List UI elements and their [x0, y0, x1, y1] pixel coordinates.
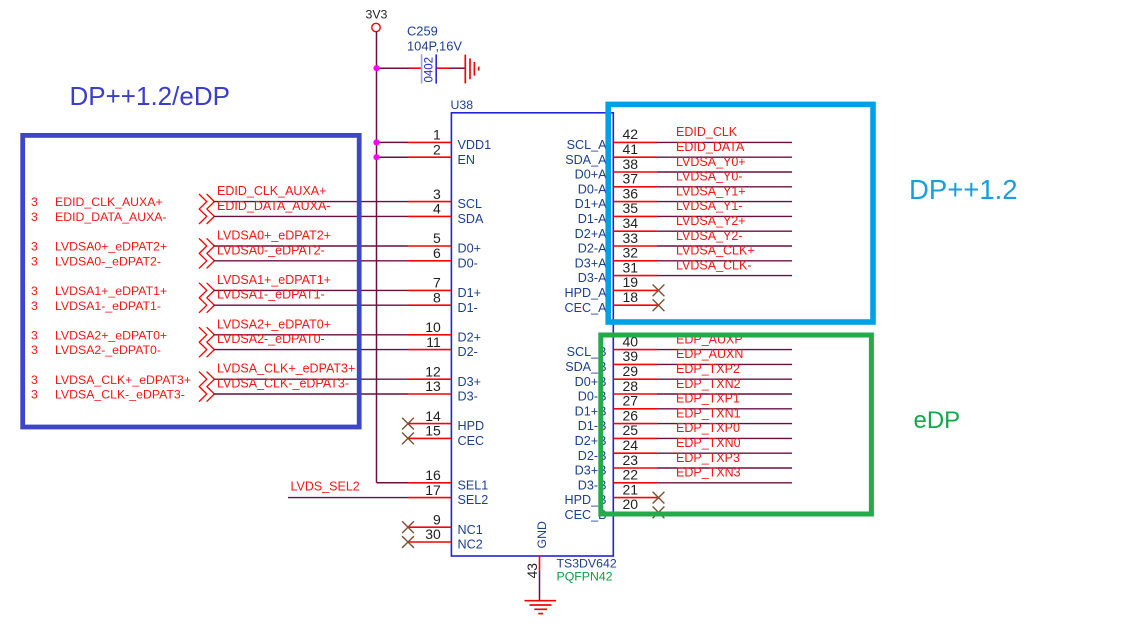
svg-text:eDP: eDP: [914, 407, 961, 434]
pin 42 (SCL_A) stub: [613, 141, 657, 143]
svg-text:3: 3: [31, 210, 38, 224]
pin 27 (D1+B) stub: [613, 408, 657, 410]
svg-text:4: 4: [433, 201, 441, 217]
svg-text:D2-A: D2-A: [578, 242, 607, 256]
svg-text:1: 1: [433, 127, 441, 143]
wire LVDSA_CLK-_eDPAT3-: [214, 393, 409, 395]
wire LVDSA_Y2-: [657, 245, 792, 247]
pin 3 (SCL) stub: [408, 201, 451, 203]
svg-text:27: 27: [623, 393, 639, 409]
wire capacitor to ground: [450, 67, 465, 69]
svg-text:EDID_DATA_AUXA-: EDID_DATA_AUXA-: [55, 210, 167, 224]
junction dot EN: [373, 154, 379, 160]
ground symbol at U38 pin 43: [525, 601, 557, 614]
svg-text:HPD_A: HPD_A: [565, 286, 608, 300]
wire EDP_TXN2: [657, 393, 792, 395]
svg-text:DP++1.2: DP++1.2: [909, 174, 1018, 205]
svg-text:D0+A: D0+A: [575, 168, 607, 182]
svg-text:34: 34: [623, 215, 639, 231]
svg-text:D1-: D1-: [458, 301, 478, 315]
svg-text:8: 8: [433, 289, 441, 305]
svg-text:D2+A: D2+A: [575, 227, 607, 241]
pin 33 (D2-A) stub: [613, 245, 657, 247]
wire EDID_DATA_AUXA-: [214, 215, 409, 217]
svg-text:D1+: D1+: [458, 286, 481, 300]
no-connect X pin 20: [653, 507, 665, 519]
wire LVDSA_Y0+: [657, 171, 792, 173]
svg-text:21: 21: [623, 481, 639, 497]
svg-text:7: 7: [433, 275, 441, 291]
pin 23 (D3+B) stub: [613, 467, 657, 469]
capacitor C259 left lead: [410, 67, 422, 69]
svg-text:EDP_TXN3: EDP_TXN3: [676, 466, 741, 480]
pin 26 (D1-B) stub: [613, 423, 657, 425]
pin 14 (HPD) stub: [408, 423, 451, 425]
pin 43 (GND) stub: [539, 556, 541, 570]
svg-text:10: 10: [425, 319, 441, 335]
svg-text:3: 3: [31, 373, 38, 387]
svg-text:24: 24: [623, 437, 639, 453]
svg-text:EDID_DATA: EDID_DATA: [676, 140, 745, 154]
svg-text:3: 3: [31, 299, 38, 313]
svg-text:LVDSA_Y1+: LVDSA_Y1+: [676, 184, 746, 198]
svg-text:30: 30: [425, 526, 441, 542]
svg-text:28: 28: [623, 378, 639, 394]
pin 31 (D3-A) stub: [613, 275, 657, 277]
svg-text:LVDSA0+_eDPAT2+: LVDSA0+_eDPAT2+: [55, 240, 167, 254]
pin 6 (D0-) stub: [408, 260, 451, 262]
no-connect X pin 14: [402, 418, 414, 430]
svg-text:VDD1: VDD1: [458, 138, 492, 152]
no-connect X pin 18: [653, 299, 665, 311]
svg-text:LVDSA1+_eDPAT1+: LVDSA1+_eDPAT1+: [217, 273, 331, 287]
no-connect X pin 15: [402, 433, 414, 445]
svg-text:HPD: HPD: [458, 419, 485, 433]
pin 39 (SDA_B) stub: [613, 363, 657, 365]
svg-text:TS3DV642: TS3DV642: [557, 556, 617, 570]
pin 25 (D2+B) stub: [613, 437, 657, 439]
svg-text:17: 17: [425, 482, 441, 498]
pin 8 (D1-) stub: [408, 304, 451, 306]
no-connect X pin 19: [653, 285, 665, 297]
svg-text:D3-A: D3-A: [578, 271, 607, 285]
wire LVDSA0+_eDPAT2+: [214, 245, 409, 247]
pin 32 (D3+A) stub: [613, 260, 657, 262]
off-page connector EDID_DATA_AUXA-: [199, 209, 214, 224]
pin 28 (D0-B) stub: [613, 393, 657, 395]
wire EDP_AUXP: [657, 349, 792, 351]
pin 5 (D0+) stub: [408, 245, 451, 247]
wire GND to ground: [539, 570, 541, 600]
group box eDP: [601, 335, 872, 514]
wire LVDSA_Y1-: [657, 215, 792, 217]
svg-text:38: 38: [623, 156, 639, 172]
wire LVDSA_Y2+: [657, 230, 792, 232]
svg-text:LVDSA_CLK+: LVDSA_CLK+: [676, 244, 755, 258]
svg-text:3V3: 3V3: [366, 8, 388, 22]
pin 38 (D0+A) stub: [613, 171, 657, 173]
wire 3V3 rail to SEL1: [377, 482, 409, 484]
svg-text:LVDSA2-_eDPAT0-: LVDSA2-_eDPAT0-: [217, 332, 325, 346]
capacitor C259 right plate: [435, 54, 437, 83]
svg-text:D2+: D2+: [458, 330, 481, 344]
svg-text:15: 15: [425, 423, 441, 439]
svg-text:26: 26: [623, 407, 639, 423]
pin 37 (D0-A) stub: [613, 186, 657, 188]
off-page connector LVDSA_CLK+_eDPAT3+: [199, 372, 214, 387]
off-page connector LVDSA0+_eDPAT2+: [199, 238, 214, 253]
svg-text:D1-A: D1-A: [578, 212, 607, 226]
svg-text:SCL_A: SCL_A: [567, 138, 608, 152]
svg-text:2: 2: [433, 141, 441, 157]
svg-text:SEL2: SEL2: [458, 493, 489, 507]
svg-text:3: 3: [31, 195, 38, 209]
junction dot VDD1: [373, 139, 379, 145]
svg-text:DP++1.2/eDP: DP++1.2/eDP: [70, 81, 230, 111]
off-page connector LVDSA_CLK-_eDPAT3-: [199, 386, 214, 401]
svg-text:33: 33: [623, 230, 639, 246]
off-page connector LVDSA1-_eDPAT1-: [199, 298, 214, 313]
junction dot capacitor branch: [373, 65, 379, 71]
svg-text:3: 3: [31, 388, 38, 402]
svg-text:D0+: D0+: [458, 242, 481, 256]
off-page connector LVDSA2-_eDPAT0-: [199, 342, 214, 357]
svg-text:LVDSA_Y0+: LVDSA_Y0+: [676, 155, 746, 169]
wire LVDSA_CLK-: [657, 275, 792, 277]
ground symbol at C259: [465, 55, 478, 84]
svg-text:SDA: SDA: [458, 212, 484, 226]
wire LVDSA1+_eDPAT1+: [214, 289, 409, 291]
svg-text:12: 12: [425, 363, 441, 379]
svg-text:PQFPN42: PQFPN42: [557, 569, 613, 583]
svg-text:5: 5: [433, 230, 441, 246]
pin 12 (D3+) stub: [408, 378, 451, 380]
svg-text:22: 22: [623, 467, 639, 483]
svg-text:LVDSA1-_eDPAT1-: LVDSA1-_eDPAT1-: [55, 299, 161, 313]
svg-text:3: 3: [31, 343, 38, 357]
off-page connector LVDSA0-_eDPAT2-: [199, 253, 214, 268]
pin 22 (D3-B) stub: [613, 482, 657, 484]
svg-text:LVDSA_CLK+_eDPAT3+: LVDSA_CLK+_eDPAT3+: [217, 362, 355, 376]
svg-text:0402: 0402: [424, 57, 436, 83]
svg-text:31: 31: [623, 259, 639, 275]
power symbol 3V3: [372, 23, 380, 31]
svg-text:9: 9: [433, 511, 441, 527]
pin 41 (SDA_A) stub: [613, 156, 657, 158]
pin 40 (SCL_B) stub: [613, 349, 657, 351]
svg-text:GND: GND: [535, 521, 549, 548]
pin 21 (HPD_B) stub: [613, 497, 658, 499]
svg-text:D3-: D3-: [458, 390, 478, 404]
svg-text:D1+A: D1+A: [575, 197, 607, 211]
svg-text:LVDSA0+_eDPAT2+: LVDSA0+_eDPAT2+: [217, 229, 331, 243]
pin 15 (CEC) stub: [408, 437, 451, 439]
pin 9 (NC1) stub: [408, 526, 451, 528]
svg-text:CEC_A: CEC_A: [565, 301, 608, 315]
wire LVDS_SEL2: [288, 497, 408, 499]
svg-text:EN: EN: [458, 153, 476, 167]
svg-text:18: 18: [623, 289, 639, 305]
svg-text:LVDSA1-_eDPAT1-: LVDSA1-_eDPAT1-: [217, 288, 325, 302]
svg-text:LVDSA2+_eDPAT0+: LVDSA2+_eDPAT0+: [55, 328, 167, 342]
wire LVDSA_Y1+: [657, 201, 792, 203]
svg-text:36: 36: [623, 185, 639, 201]
svg-text:37: 37: [623, 171, 639, 187]
wire EDID_CLK_AUXA+: [214, 201, 409, 203]
wire EDP_TXN0: [657, 452, 792, 454]
svg-text:EDP_TXP3: EDP_TXP3: [676, 451, 740, 465]
off-page connector EDID_CLK_AUXA+: [199, 194, 214, 209]
pin 34 (D2+A) stub: [613, 230, 657, 232]
svg-text:EDID_CLK_AUXA+: EDID_CLK_AUXA+: [55, 195, 163, 209]
pin 2 (EN) stub: [408, 156, 451, 158]
pin 1 (VDD1) stub: [408, 141, 451, 143]
wire EDP_TXP3: [657, 467, 792, 469]
svg-text:6: 6: [433, 245, 441, 261]
svg-text:41: 41: [623, 141, 639, 157]
off-page connector LVDSA2+_eDPAT0+: [199, 327, 214, 342]
svg-text:42: 42: [623, 126, 639, 142]
wire EDP_TXN3: [657, 482, 792, 484]
svg-text:EDP_TXP2: EDP_TXP2: [676, 362, 740, 376]
svg-text:LVDSA_Y1-: LVDSA_Y1-: [676, 199, 742, 213]
pin 10 (D2+) stub: [408, 334, 451, 336]
wire 3V3 vertical rail: [376, 32, 378, 483]
wire LVDSA_CLK+: [657, 260, 792, 262]
pin 30 (NC2) stub: [408, 541, 451, 543]
svg-text:32: 32: [623, 245, 639, 261]
svg-text:104P,16V: 104P,16V: [407, 39, 462, 54]
svg-text:LVDSA0-_eDPAT2-: LVDSA0-_eDPAT2-: [55, 254, 161, 268]
wire LVDSA2-_eDPAT0-: [214, 349, 409, 351]
svg-text:20: 20: [623, 496, 639, 512]
svg-text:3: 3: [31, 284, 38, 298]
svg-text:LVDSA_CLK+_eDPAT3+: LVDSA_CLK+_eDPAT3+: [55, 373, 191, 387]
svg-text:CEC: CEC: [458, 434, 485, 448]
svg-text:14: 14: [425, 408, 441, 424]
pin 29 (D0+B) stub: [613, 378, 657, 380]
svg-text:13: 13: [425, 378, 441, 394]
wire LVDSA0-_eDPAT2-: [214, 260, 409, 262]
svg-text:D0-: D0-: [458, 256, 478, 270]
group box DP++1.2/eDP: [23, 135, 360, 427]
IC U38 body: [451, 113, 613, 556]
wire LVDSA_CLK+_eDPAT3+: [214, 378, 409, 380]
svg-text:SDA_A: SDA_A: [565, 153, 607, 167]
pin 20 (CEC_B) stub: [613, 511, 658, 513]
capacitor C259 left plate: [421, 54, 423, 83]
svg-text:3: 3: [31, 254, 38, 268]
group box DP++1.2: [608, 104, 873, 322]
svg-text:EDID_CLK_AUXA+: EDID_CLK_AUXA+: [217, 184, 326, 198]
wire VDD1 from rail: [377, 141, 409, 143]
pin 16 (SEL1) stub: [408, 482, 451, 484]
svg-text:U38: U38: [451, 98, 474, 112]
no-connect X pin 21: [653, 492, 665, 504]
pin 13 (D3-) stub: [408, 393, 451, 395]
svg-text:3: 3: [31, 328, 38, 342]
wire EDP_TXP2: [657, 378, 792, 380]
svg-text:35: 35: [623, 200, 639, 216]
svg-text:LVDSA_CLK-_eDPAT3-: LVDSA_CLK-_eDPAT3-: [217, 377, 349, 391]
svg-text:EDID_DATA_AUXA-: EDID_DATA_AUXA-: [217, 199, 330, 213]
svg-text:NC2: NC2: [458, 538, 483, 552]
svg-text:D3+A: D3+A: [575, 256, 607, 270]
svg-text:43: 43: [524, 563, 540, 579]
svg-text:EDP_TXN2: EDP_TXN2: [676, 377, 741, 391]
svg-text:11: 11: [426, 334, 441, 350]
wire 3V3 to capacitor: [377, 67, 410, 69]
no-connect X pin 30: [402, 536, 414, 548]
svg-text:EDP_AUXN: EDP_AUXN: [676, 347, 743, 361]
svg-text:19: 19: [623, 274, 639, 290]
wire EDP_TXN1: [657, 423, 792, 425]
pin 18 (CEC_A) stub: [613, 304, 658, 306]
svg-text:EDP_TXP1: EDP_TXP1: [676, 392, 740, 406]
pin 7 (D1+) stub: [408, 289, 451, 291]
svg-text:LVDS_SEL2: LVDS_SEL2: [291, 479, 360, 493]
svg-text:3: 3: [31, 240, 38, 254]
wire EDP_AUXN: [657, 363, 792, 365]
svg-text:C259: C259: [407, 24, 438, 39]
svg-text:23: 23: [623, 452, 639, 468]
wire EDID_DATA: [657, 156, 792, 158]
wire LVDSA2+_eDPAT0+: [214, 334, 409, 336]
pin 24 (D2-B) stub: [613, 452, 657, 454]
svg-text:SEL1: SEL1: [458, 478, 489, 492]
wire LVDSA_Y0-: [657, 186, 792, 188]
svg-text:EDID_CLK: EDID_CLK: [676, 125, 738, 139]
pin 4 (SDA) stub: [408, 215, 451, 217]
wire LVDSA1-_eDPAT1-: [214, 304, 409, 306]
svg-text:25: 25: [623, 422, 639, 438]
svg-text:LVDSA_Y2-: LVDSA_Y2-: [676, 229, 742, 243]
no-connect X pin 9: [402, 521, 414, 533]
pin 36 (D1+A) stub: [613, 201, 657, 203]
pin 19 (HPD_A) stub: [613, 289, 658, 291]
wire EDP_TXP1: [657, 408, 792, 410]
wire EDID_CLK: [657, 141, 792, 143]
svg-text:EDP_TXN1: EDP_TXN1: [676, 406, 741, 420]
svg-text:LVDSA1+_eDPAT1+: LVDSA1+_eDPAT1+: [55, 284, 167, 298]
pin 11 (D2-) stub: [408, 349, 451, 351]
svg-text:LVDSA_CLK-: LVDSA_CLK-: [676, 258, 752, 272]
svg-text:LVDSA2+_eDPAT0+: LVDSA2+_eDPAT0+: [217, 317, 331, 331]
svg-text:LVDSA_Y2+: LVDSA_Y2+: [676, 214, 746, 228]
svg-text:LVDSA0-_eDPAT2-: LVDSA0-_eDPAT2-: [217, 243, 325, 257]
svg-text:LVDSA2-_eDPAT0-: LVDSA2-_eDPAT0-: [55, 343, 161, 357]
svg-text:29: 29: [623, 363, 639, 379]
svg-text:D0-A: D0-A: [578, 182, 607, 196]
off-page connector LVDSA1+_eDPAT1+: [199, 283, 214, 298]
wire EDP_TXP0: [657, 437, 792, 439]
svg-text:LVDSA_Y0-: LVDSA_Y0-: [676, 170, 742, 184]
wire EN from rail: [377, 156, 409, 158]
pin 35 (D1-A) stub: [613, 215, 657, 217]
svg-text:LVDSA_CLK-_eDPAT3-: LVDSA_CLK-_eDPAT3-: [55, 388, 185, 402]
svg-text:EDP_TXP0: EDP_TXP0: [676, 421, 740, 435]
svg-text:SCL: SCL: [458, 197, 483, 211]
svg-text:D2-: D2-: [458, 345, 478, 359]
svg-text:D3+: D3+: [458, 375, 481, 389]
svg-text:NC1: NC1: [458, 523, 483, 537]
pin 17 (SEL2) stub: [408, 497, 451, 499]
svg-text:39: 39: [623, 348, 639, 364]
capacitor C259 right lead: [437, 67, 450, 69]
svg-text:16: 16: [425, 467, 441, 483]
svg-text:3: 3: [433, 186, 441, 202]
svg-text:EDP_TXN0: EDP_TXN0: [676, 436, 741, 450]
